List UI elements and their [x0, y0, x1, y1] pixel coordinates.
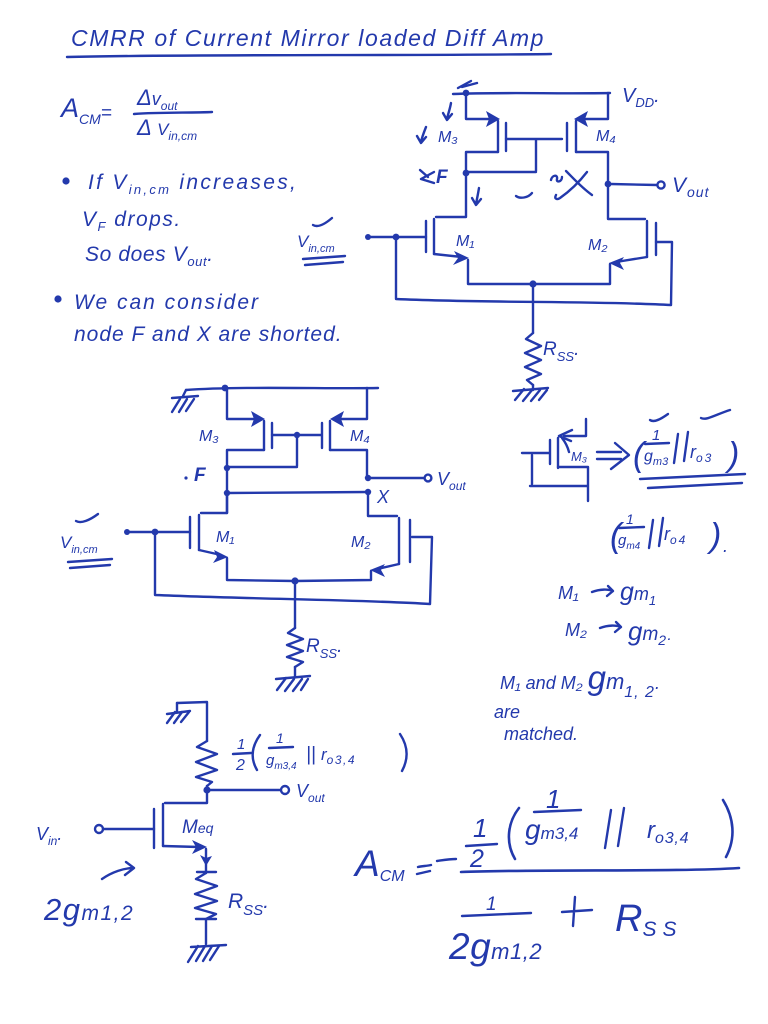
input terminal dot [365, 234, 371, 240]
svg-text:gm2 .: gm2 . [628, 616, 672, 648]
svg-text:CMRR of Current Mirror loaded: CMRR of Current Mirror loaded Diff Amp [71, 25, 545, 51]
svg-text:1: 1 [276, 730, 284, 746]
transistor Meq [103, 790, 212, 873]
svg-text:M₄: M₄ [596, 128, 616, 145]
tail wire (middle) [294, 581, 296, 628]
svg-text:RSS.: RSS. [543, 339, 579, 364]
Vout terminal (middle) [425, 475, 432, 482]
node dot after resistor [203, 786, 210, 793]
svg-text:.: . [723, 536, 728, 556]
plus [562, 897, 592, 926]
resistor 1/2(1/gm3,4||ro3,4) [196, 741, 217, 786]
transistor M3 (PMOS) [466, 93, 506, 172]
tail node dot (middle) [291, 577, 298, 584]
svg-text:2: 2 [469, 845, 484, 873]
Vout terminal (bottom) [281, 786, 289, 794]
node X dot [605, 181, 612, 188]
top rail wire [186, 388, 378, 390]
svg-text:1: 1 [652, 427, 660, 444]
bullet 2 [54, 295, 61, 302]
svg-text:M₁: M₁ [558, 583, 579, 603]
equation ACM = dVout/dVin,cm [59, 85, 212, 143]
wire node to Vout [207, 786, 280, 790]
svg-text:1: 1 [473, 813, 487, 843]
svg-text:If Vin,cm increases,: If Vin,cm increases, [88, 171, 298, 197]
transistor M1 (NMOS) [368, 173, 533, 284]
inner fraction 1/gm3,4 [525, 784, 581, 845]
M1 -> gm1 [558, 578, 656, 608]
transistor M1 (NMOS, middle circuit) [129, 493, 295, 581]
svg-text:1: 1 [546, 784, 560, 814]
tail wire [532, 284, 534, 333]
svg-text:We can consider: We can consider [74, 291, 260, 314]
numerator 1/2 [466, 813, 497, 873]
junction dot rail [222, 385, 229, 392]
svg-text:Δvout: Δvout [136, 85, 178, 113]
svg-text:2gm1,2: 2gm1,2 [448, 926, 542, 967]
double underline (middle) [68, 559, 112, 568]
svg-text:1: 1 [486, 894, 497, 915]
svg-text:1: 1 [626, 511, 634, 527]
resistor RSS (top circuit) [525, 333, 541, 385]
svg-text:RSS.: RSS. [306, 636, 342, 661]
svg-text:gm3,4: gm3,4 [525, 814, 578, 845]
svg-text:matched.: matched. [504, 724, 578, 744]
node F dot (middle) [224, 465, 230, 471]
svg-text:Vin.: Vin. [36, 824, 62, 848]
svg-text:VF drops.: VF drops. [82, 208, 182, 234]
svg-text:ro4: ro4 [664, 524, 687, 547]
svg-text:ACM=: ACM= [59, 93, 112, 127]
F vertical wire [226, 467, 228, 513]
svg-text:2gm1,2: 2gm1,2 [43, 892, 134, 927]
title: CMRR of Current Mirror loaded Diff Amp [67, 25, 551, 57]
arrow down near M3 source [443, 103, 452, 120]
svg-text:VDD.: VDD. [622, 85, 660, 110]
F-X short wire [227, 492, 368, 493]
expression (1/gm3 || ro3) [633, 410, 739, 474]
svg-text:M₂: M₂ [351, 534, 370, 551]
node F dot [463, 170, 470, 177]
svg-text:gm4: gm4 [618, 532, 641, 552]
svg-text:node F and X are shorted.: node F and X are shorted. [74, 323, 343, 346]
transistor M4 (PMOS) [567, 93, 608, 183]
svg-text:ro3: ro3 [690, 442, 713, 465]
bullet 1 [62, 177, 69, 184]
open paren [509, 808, 519, 859]
note: M1 and M2 gm1,2 are matched [494, 659, 660, 744]
double underline under expression [640, 474, 745, 488]
junction dot rail [463, 90, 470, 97]
svg-text:Vout: Vout [296, 781, 325, 805]
wire from ground to resistor [177, 702, 207, 741]
svg-text:M₁: M₁ [216, 529, 234, 546]
wire X to Vout [611, 184, 657, 185]
small down arrow below F [472, 188, 481, 205]
svg-text:RSS: RSS [615, 898, 682, 941]
VDD rail wire [453, 93, 610, 94]
svg-text:So does Vout.: So does Vout. [85, 243, 214, 269]
ACM = - [353, 843, 456, 885]
resistor RSS (bottom) [195, 872, 217, 919]
svg-text:gm3,4: gm3,4 [266, 752, 297, 772]
svg-text:RSS.: RSS. [228, 890, 269, 919]
expression (1/gm4 || ro4) [610, 511, 728, 556]
svg-text:ro3,4: ro3,4 [321, 745, 356, 767]
Vout terminal [657, 181, 664, 188]
small curve mark [516, 193, 532, 198]
transistor M2 (NMOS, middle circuit) [295, 492, 410, 581]
mirror gate wire [229, 435, 321, 467]
ground top-left [172, 390, 198, 412]
ground (top circuit) [513, 385, 548, 401]
svg-text:Meq: Meq [182, 817, 214, 838]
Vin terminal [95, 825, 103, 833]
arrow to transistor [102, 862, 134, 879]
arrow scribble left of F [420, 170, 434, 183]
svg-text:M₂: M₂ [588, 237, 607, 254]
wire to Vout (middle) [368, 477, 424, 479]
svg-text:F: F [436, 167, 449, 188]
junction dot gate M1 [393, 234, 400, 241]
tail node dot [529, 280, 536, 287]
svg-text:||: || [306, 744, 316, 765]
ground (middle circuit) [276, 667, 310, 691]
svg-text:Vout: Vout [672, 174, 710, 200]
svg-text:M₁: M₁ [456, 233, 474, 250]
svg-text:gm3: gm3 [644, 448, 669, 468]
svg-text:M₁ and M₂ gm1, 2.: M₁ and M₂ gm1, 2. [500, 659, 660, 701]
svg-text:Vin,cm: Vin,cm [297, 232, 335, 255]
parallel bars [605, 808, 624, 848]
check arrow (middle) [76, 514, 98, 522]
mirror gate wire [466, 139, 562, 172]
svg-text:): ) [706, 517, 721, 555]
transistor M4 (PMOS, middle circuit) [322, 388, 367, 478]
close paren [723, 800, 732, 857]
X scribble label [551, 171, 592, 199]
svg-text:X: X [376, 487, 390, 507]
svg-text:M₃: M₃ [199, 428, 219, 445]
svg-text:M₃: M₃ [571, 449, 587, 464]
svg-text:M₂: M₂ [565, 620, 587, 640]
svg-text:Vout: Vout [437, 469, 466, 493]
arrow mark left of M3 [417, 127, 426, 143]
svg-text:are: are [494, 702, 520, 722]
svg-text:): ) [724, 436, 739, 474]
svg-text:Δ Vin,cm: Δ Vin,cm [136, 115, 197, 143]
ground (bottom circuit) [188, 945, 226, 962]
denominator 1/(2gm1,2) [448, 894, 542, 967]
common-mode input wire to both gates [396, 237, 672, 305]
junction dot gate M1 (middle) [152, 529, 159, 536]
input terminal dot (middle) [124, 529, 130, 535]
ground top [167, 703, 190, 723]
svg-text:2: 2 [235, 757, 245, 774]
gate junction dot [294, 432, 300, 438]
double underline [303, 256, 345, 265]
wire to ground (bottom) [205, 919, 207, 944]
M2 -> gm2 [565, 616, 672, 648]
svg-text:Vin,cm: Vin,cm [60, 533, 98, 556]
svg-text:F: F [194, 465, 207, 486]
big double arrow [597, 443, 629, 469]
svg-text:M₄: M₄ [350, 428, 370, 445]
transistor M3 (PMOS, middle circuit) [227, 388, 272, 467]
svg-text:ro3,4: ro3,4 [647, 817, 689, 847]
F-X dots [224, 490, 230, 496]
main fraction bar [461, 868, 739, 872]
common-mode input wire (middle) [155, 532, 432, 604]
check arrow above Vin,cm [313, 218, 332, 226]
node X dot (middle) [365, 475, 371, 481]
svg-text:1: 1 [237, 736, 245, 753]
power tick at top [458, 81, 477, 88]
transistor M2 (NMOS) [533, 184, 656, 284]
svg-text:gm1: gm1 [620, 578, 656, 608]
svg-text:ACM: ACM [353, 843, 405, 885]
resistor RSS (middle) [287, 628, 303, 667]
svg-text:M₃: M₃ [438, 129, 458, 146]
resistor label fraction 1/2 [233, 730, 407, 774]
